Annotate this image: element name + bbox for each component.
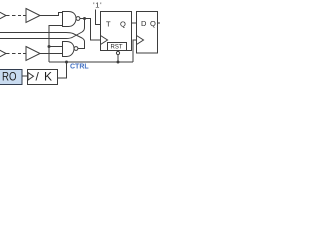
flip-flop FF2 box [137,12,158,54]
clock triangle FF1 [101,36,108,45]
svg-text:CTRL: CTRL [70,64,89,71]
inverter chain B partial triangle at left edge [0,46,6,61]
svg-text:'1': '1' [93,1,102,10]
wire RO to divider [22,75,28,77]
wire ctrl riser to NAND1 lower input [49,26,63,63]
clock triangle FF2 [137,36,144,45]
wire ctrl horizontal run [49,61,133,63]
svg-text:Q: Q [150,19,156,28]
nand gate U1 [63,12,77,27]
block RO box [0,70,22,85]
wire divider output riser to ctrl [58,62,67,78]
svg-text:RST: RST [111,45,123,51]
wire FF1 Q to FF2 D [132,22,137,24]
wire U1 output to FF1 clock [80,19,101,41]
clock triangle divider [28,73,34,81]
buffer A [26,9,40,23]
junction dot ctrl-NAND2 branch [48,45,51,48]
svg-text:RO: RO [2,70,17,84]
rst sub-box FF1 [108,43,127,51]
wire net B feedback from U1 output to left edge [0,19,85,39]
wire buffer B to NAND2 lower input [40,53,63,55]
inverter chain A partial triangle at left edge [0,8,6,23]
wire dashed chain A [6,15,26,17]
svg-text:D: D [141,19,147,28]
junction dot U1 output [83,17,86,20]
svg-text:Q: Q [120,19,126,28]
bubble U1 [76,17,80,21]
bubble U2 [74,47,78,51]
wire ctrl to FF1 reset bubble [117,55,119,62]
svg-text:/ K: / K [36,69,53,83]
svg-text:T: T [106,19,111,28]
bubble FF1 reset [116,51,119,54]
buffer B [26,47,40,61]
junction dot divider-ctrl [65,61,68,64]
wire FF2 Q output stub [158,22,161,24]
junction dot rst-ctrl [117,61,120,64]
wire constant 1 to T input [96,10,101,25]
wire ctrl to FF2 clock [133,40,137,62]
flip-flop FF1 box [101,12,132,51]
wire dashed chain B [6,53,26,55]
wire ctrl branch to NAND2 upper input [49,46,63,48]
block divider /K box [28,70,58,85]
wire buffer A to NAND1 upper input [40,13,63,16]
nand gate U2 [63,42,75,57]
wire net A feedback from U2 output to left edge [0,33,85,49]
